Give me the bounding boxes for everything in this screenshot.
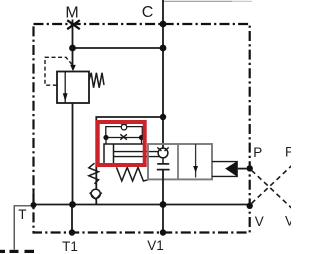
svg-text:P: P — [285, 145, 291, 160]
svg-text:V: V — [285, 214, 291, 229]
svg-text:C: C — [142, 4, 154, 21]
svg-text:T1: T1 — [62, 239, 78, 254]
svg-text:V1: V1 — [147, 238, 164, 253]
svg-text:P: P — [253, 145, 262, 160]
svg-text:M: M — [65, 5, 78, 22]
svg-text:V: V — [255, 214, 264, 229]
svg-text:T: T — [18, 207, 26, 222]
